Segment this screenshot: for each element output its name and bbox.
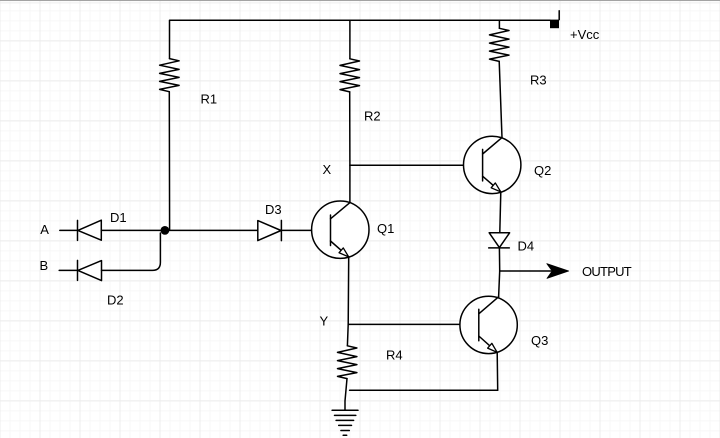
output arrowhead — [547, 264, 569, 279]
ground — [332, 409, 358, 411]
resistor R4 — [338, 346, 357, 379]
svg-text:Q1: Q1 — [377, 221, 394, 236]
svg-text:+Vcc: +Vcc — [570, 27, 600, 42]
wire D1 to junction — [101, 229, 164, 231]
svg-text:D4: D4 — [518, 239, 535, 254]
+Vcc terminal tick — [558, 11, 560, 20]
diode D1 — [77, 220, 79, 240]
diode D4 — [489, 233, 509, 248]
svg-text:R1: R1 — [201, 91, 218, 106]
wire input A lead — [60, 229, 78, 231]
wire Q3 emitter down — [496, 352, 499, 390]
wire bottom rail Q3 to R4 ground leg — [350, 389, 498, 391]
svg-text:Q2: Q2 — [534, 163, 551, 178]
+Vcc terminal square — [550, 20, 559, 29]
wire top rail from R1 top to +Vcc terminal — [170, 20, 551, 58]
svg-text:R3: R3 — [530, 72, 547, 87]
wire junction to D3 — [166, 229, 258, 231]
svg-text:B: B — [40, 258, 49, 273]
transistor Q2 — [464, 136, 521, 193]
svg-text:D2: D2 — [107, 293, 124, 308]
wire D3 to Q1 base — [281, 229, 330, 231]
wire Q2 emitter to D4 — [500, 192, 501, 232]
svg-text:D3: D3 — [265, 202, 282, 217]
wire D4 to output junction and Q3 collector — [499, 248, 500, 297]
svg-text:OUTPUT: OUTPUT — [582, 264, 632, 279]
svg-text:X: X — [323, 162, 332, 177]
wire X to Q2 base — [350, 164, 483, 166]
diode D3 — [258, 221, 281, 241]
resistor R3 — [490, 28, 510, 61]
wire D2 to junction (rounded corner) — [102, 233, 161, 270]
junction node dot — [161, 226, 170, 235]
svg-text:Y: Y — [320, 314, 329, 329]
svg-text:R4: R4 — [386, 347, 403, 362]
transistor Q1 — [312, 201, 369, 258]
top border line — [0, 0, 720, 1]
svg-text:Q3: Q3 — [531, 333, 548, 348]
wire input B lead — [59, 269, 77, 271]
wire R1 bottom to input junction — [168, 92, 170, 231]
wire R3 bottom to Q2 collector — [499, 61, 502, 137]
diode D2 — [77, 260, 79, 280]
wire R2 bottom to X and Q1 collector — [349, 92, 351, 202]
wire Y to Q3 base — [348, 323, 479, 325]
wire output tap — [500, 270, 551, 272]
svg-text:D1: D1 — [110, 210, 127, 225]
svg-text:A: A — [40, 222, 49, 237]
wire Y to R4 — [346, 324, 349, 345]
wire R4 to ground — [345, 379, 347, 411]
transistor Q3 — [460, 296, 517, 353]
wire Q1 emitter to Y — [347, 257, 350, 325]
wire R2 branch top — [349, 20, 351, 59]
resistor R1 — [160, 59, 180, 92]
wire R3 branch top — [498, 20, 500, 28]
resistor R2 — [340, 59, 360, 92]
svg-text:R2: R2 — [364, 109, 381, 124]
